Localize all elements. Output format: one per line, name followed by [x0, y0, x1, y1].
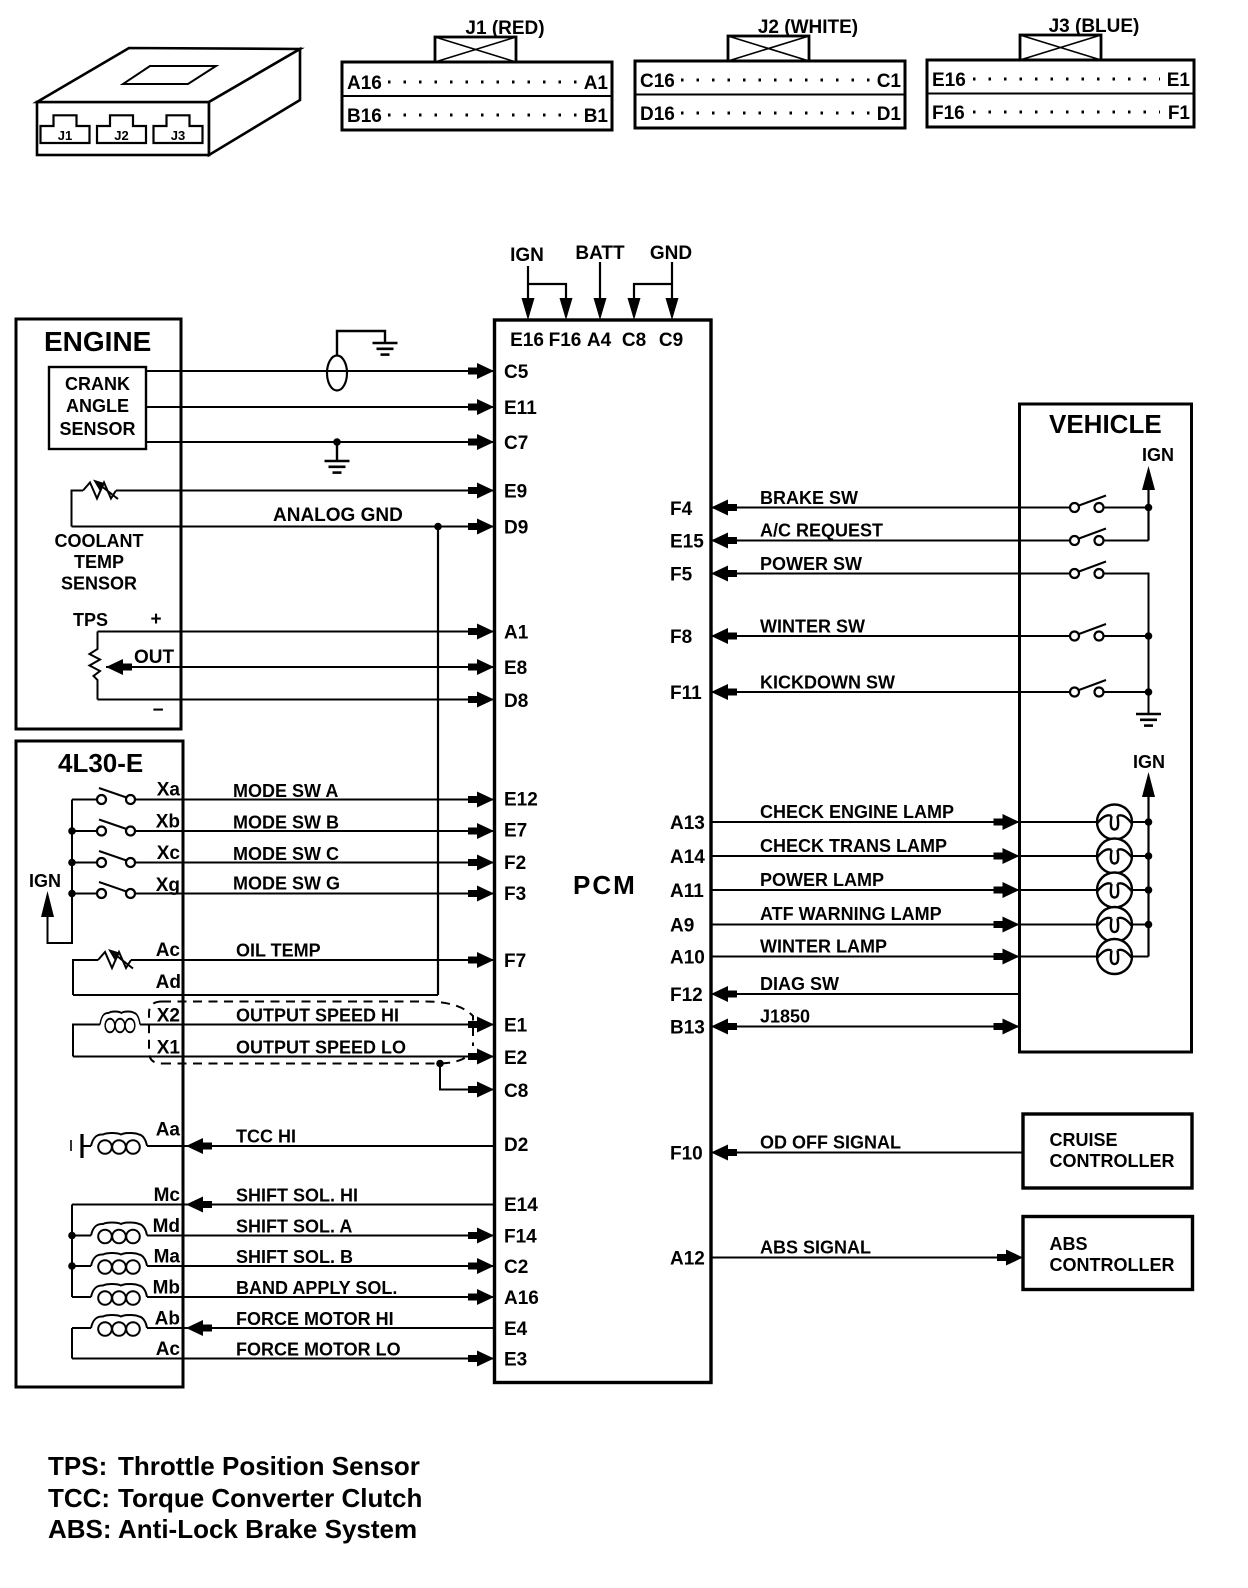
svg-text:D16: D16	[640, 104, 675, 125]
svg-text:Xb: Xb	[156, 812, 180, 833]
svg-text:ANALOG GND: ANALOG GND	[273, 505, 403, 526]
svg-text:B16: B16	[347, 106, 382, 127]
svg-text:−: −	[152, 700, 163, 721]
wire ATF warning lamp A9	[711, 924, 1097, 926]
svg-text:ABS SIGNAL: ABS SIGNAL	[760, 1238, 871, 1258]
wire shield drain to C8	[440, 1064, 493, 1090]
oil temp sensor thermistor	[98, 952, 131, 968]
wire output speed lo to E2	[73, 1056, 493, 1058]
wire TPS - to D8	[98, 699, 494, 701]
switch Xa (mode A)	[72, 799, 97, 801]
svg-text:SHIFT SOL. A: SHIFT SOL. A	[236, 1217, 352, 1237]
switch kickdown	[1070, 688, 1079, 697]
svg-text:ATF WARNING LAMP: ATF WARNING LAMP	[760, 904, 942, 924]
svg-text:F16: F16	[932, 103, 965, 124]
svg-text:SHIFT SOL. B: SHIFT SOL. B	[236, 1247, 353, 1267]
shift solenoid B coil Ma	[72, 1265, 91, 1267]
svg-text:F4: F4	[670, 499, 693, 520]
svg-text:CONTROLLER: CONTROLLER	[1050, 1255, 1175, 1275]
svg-text:F14: F14	[504, 1227, 537, 1248]
svg-text:E2: E2	[504, 1048, 527, 1069]
svg-text:TPS:: TPS:	[48, 1451, 107, 1481]
force motor rail	[71, 1328, 73, 1359]
svg-text:X2: X2	[157, 1006, 180, 1027]
shift solenoid rail	[71, 1205, 73, 1298]
svg-text:A10: A10	[670, 948, 705, 969]
node junction winter row	[1145, 632, 1153, 640]
svg-text:ANGLE: ANGLE	[66, 396, 129, 416]
svg-text:F11: F11	[670, 683, 702, 704]
svg-text:F12: F12	[670, 985, 703, 1006]
wire diag sw F12	[711, 993, 1020, 995]
svg-text:Mb: Mb	[153, 1278, 180, 1299]
wire shift sol. B to C2	[147, 1265, 493, 1267]
wire power sw ground rail	[1104, 574, 1149, 714]
lamp check trans	[1097, 839, 1132, 874]
wire band apply sol. to A16	[147, 1296, 493, 1298]
wire winter sw to F8	[711, 635, 1070, 637]
svg-text:SENSOR: SENSOR	[61, 574, 137, 594]
wire analog gnd to D9	[72, 526, 494, 528]
svg-text:BATT: BATT	[575, 243, 625, 264]
wire crank to E11	[146, 406, 493, 408]
svg-text:A16: A16	[504, 1288, 539, 1309]
svg-text:F3: F3	[504, 884, 526, 905]
coolant temp sensor thermistor	[83, 483, 116, 499]
wire oil temp low side	[73, 960, 98, 995]
node junction on shield drain	[436, 1060, 444, 1068]
svg-text:MODE SW C: MODE SW C	[233, 844, 339, 864]
svg-text:FORCE MOTOR LO: FORCE MOTOR LO	[236, 1340, 401, 1360]
wire analog gnd vertical	[437, 527, 439, 996]
svg-text:DIAG SW: DIAG SW	[760, 974, 839, 994]
wire crank to C5	[146, 370, 493, 372]
svg-text:TPS: TPS	[73, 610, 108, 630]
svg-text:POWER LAMP: POWER LAMP	[760, 870, 884, 890]
svg-text:WINTER LAMP: WINTER LAMP	[760, 937, 887, 957]
svg-text:C5: C5	[504, 362, 529, 383]
shift solenoid A coil Md	[72, 1235, 91, 1237]
svg-text:OD OFF SIGNAL: OD OFF SIGNAL	[760, 1133, 901, 1153]
switch a/c	[1070, 536, 1079, 545]
svg-text:A9: A9	[670, 916, 694, 937]
svg-text:Xa: Xa	[157, 780, 181, 801]
svg-text:CONTROLLER: CONTROLLER	[1050, 1151, 1175, 1171]
wire shield pigtail to ground	[337, 331, 385, 356]
svg-text:Anti-Lock Brake System: Anti-Lock Brake System	[118, 1514, 417, 1544]
mode switch rail	[48, 800, 73, 944]
svg-text:F5: F5	[670, 565, 693, 586]
node junction Xg	[68, 890, 76, 898]
svg-text:Ma: Ma	[154, 1247, 181, 1268]
svg-text:C7: C7	[504, 433, 528, 454]
wire crank to C7	[146, 441, 493, 443]
svg-text:E9: E9	[504, 482, 527, 503]
node junction Xb	[68, 827, 76, 835]
node junction Xc	[68, 859, 76, 867]
svg-text:A13: A13	[670, 813, 705, 834]
wire TPS + to A1	[98, 631, 494, 633]
lamp power	[1097, 873, 1132, 908]
svg-text:A16: A16	[347, 73, 382, 94]
svg-text:E12: E12	[504, 790, 538, 811]
svg-text:WINTER SW: WINTER SW	[760, 617, 865, 637]
svg-text:KICKDOWN SW: KICKDOWN SW	[760, 673, 895, 693]
TPS resistor body	[90, 632, 101, 700]
svg-text:IGN: IGN	[1133, 752, 1165, 772]
force motor coil Ab	[72, 1327, 91, 1329]
band apply solenoid coil Mb	[72, 1296, 91, 1298]
svg-text:F16: F16	[549, 330, 582, 351]
wire mode sw B to E7	[135, 830, 493, 832]
switch Xc (mode C)	[72, 862, 97, 864]
svg-text:A/C REQUEST: A/C REQUEST	[760, 521, 883, 541]
wire check engine lamp A13	[711, 821, 1097, 823]
svg-text:E7: E7	[504, 821, 527, 842]
svg-text:E3: E3	[504, 1350, 527, 1371]
svg-text:J1850: J1850	[760, 1007, 810, 1027]
wire lamp rail	[1147, 797, 1149, 957]
wire shift sol. A to F14	[147, 1235, 493, 1237]
svg-text:J2: J2	[114, 128, 128, 143]
4L30-E box	[16, 741, 183, 1387]
ground (crank shield)	[373, 343, 398, 355]
ENGINE box	[16, 319, 181, 729]
svg-text:BAND APPLY SOL.: BAND APPLY SOL.	[236, 1278, 397, 1298]
svg-text:B13: B13	[670, 1018, 705, 1039]
switch Xg (mode G)	[72, 893, 97, 895]
svg-text:IGN: IGN	[510, 245, 544, 266]
svg-text:CHECK TRANS LAMP: CHECK TRANS LAMP	[760, 836, 947, 856]
inline connector ellipse on C5 wire	[327, 356, 347, 391]
svg-text:D8: D8	[504, 691, 528, 712]
svg-text:SENSOR: SENSOR	[59, 419, 135, 439]
svg-text:C8: C8	[622, 330, 646, 351]
svg-text:E4: E4	[504, 1319, 528, 1340]
wire TCC HI to D2	[147, 1145, 494, 1147]
svg-text:E15: E15	[670, 532, 704, 553]
crank angle sensor box	[49, 367, 146, 449]
wire shift sol. hi to E14	[72, 1204, 494, 1206]
TCC solenoid coil Aa	[84, 1145, 92, 1147]
wire output speed sensor low side	[73, 1025, 100, 1057]
svg-text:D1: D1	[877, 104, 902, 125]
svg-text:C8: C8	[504, 1081, 528, 1102]
svg-text:F10: F10	[670, 1144, 703, 1165]
svg-text:OUTPUT SPEED HI: OUTPUT SPEED HI	[236, 1006, 399, 1026]
svg-text:C2: C2	[504, 1257, 528, 1278]
connector J3 tab on module	[154, 115, 203, 143]
wire coolant low side	[72, 491, 84, 527]
svg-text:ENGINE: ENGINE	[44, 326, 151, 357]
wire junction down	[336, 442, 338, 460]
shield (output speed, dashed)	[149, 1002, 162, 1064]
svg-text:F1: F1	[1168, 103, 1191, 124]
svg-text:SHIFT SOL. HI: SHIFT SOL. HI	[236, 1186, 358, 1206]
node junction on D9 wire	[434, 523, 442, 531]
svg-text:E8: E8	[504, 658, 527, 679]
svg-text:PCM: PCM	[573, 870, 637, 900]
wire Ad to analog gnd	[73, 994, 438, 996]
svg-text:TCC HI: TCC HI	[236, 1127, 296, 1147]
svg-text:F2: F2	[504, 853, 526, 874]
svg-text:ABS: ABS	[1050, 1234, 1088, 1254]
svg-text:MODE SW G: MODE SW G	[233, 874, 340, 894]
switch brake	[1070, 503, 1079, 512]
svg-text:Md: Md	[153, 1216, 180, 1237]
wire check trans lamp A14	[711, 855, 1097, 857]
svg-text:FORCE MOTOR HI: FORCE MOTOR HI	[236, 1309, 394, 1329]
svg-text:J1: J1	[58, 128, 72, 143]
lamp ATF warning	[1097, 907, 1132, 942]
svg-text:E11: E11	[504, 398, 537, 419]
IGN arrow (4L30)	[41, 891, 54, 917]
svg-text:Aa: Aa	[156, 1120, 181, 1141]
wire a/c request to E15	[711, 540, 1070, 542]
svg-text:COOLANT: COOLANT	[55, 531, 144, 551]
svg-text:A11: A11	[670, 881, 704, 902]
svg-text:A1: A1	[504, 623, 529, 644]
svg-text:X1: X1	[157, 1038, 181, 1059]
PCM module 3D box	[37, 48, 300, 155]
wire J1850 B13	[711, 1026, 1020, 1028]
svg-text:D9: D9	[504, 518, 528, 539]
connector J1 tab on module	[41, 115, 90, 143]
ground (vehicle switches)	[1136, 714, 1161, 726]
wire OD off signal F10	[711, 1152, 1023, 1154]
svg-text:B1: B1	[584, 106, 609, 127]
wire kickdown sw to F11	[711, 691, 1070, 693]
svg-text:F8: F8	[670, 627, 692, 648]
wire force motor lo to E3	[72, 1358, 493, 1360]
switch Xb (mode B)	[72, 830, 97, 832]
svg-text:Ad: Ad	[156, 972, 181, 993]
svg-text:GND: GND	[650, 243, 692, 264]
svg-text:A4: A4	[587, 330, 612, 351]
wire power lamp A11	[711, 889, 1097, 891]
svg-text:Ac: Ac	[156, 1339, 181, 1360]
top label plate	[123, 66, 216, 84]
lamp winter	[1097, 939, 1132, 974]
svg-text:IGN: IGN	[1142, 445, 1174, 465]
svg-text:OUTPUT SPEED LO: OUTPUT SPEED LO	[236, 1038, 406, 1058]
svg-text:E16: E16	[510, 330, 544, 351]
svg-text:BRAKE SW: BRAKE SW	[760, 488, 858, 508]
connector J2 tab on module	[97, 115, 146, 143]
wire mode sw G to F3	[135, 893, 493, 895]
wire IGN to E16/F16	[528, 266, 566, 300]
wire force motor hi to E4	[147, 1327, 494, 1329]
ground (C7)	[325, 461, 350, 473]
svg-text:E1: E1	[504, 1016, 528, 1037]
output speed sensor coil X2/X1	[100, 1012, 140, 1033]
svg-text:IGN: IGN	[29, 871, 61, 891]
svg-text:TCC:: TCC:	[48, 1483, 110, 1513]
wire mode sw C to F2	[135, 862, 493, 864]
svg-text:CHECK ENGINE LAMP: CHECK ENGINE LAMP	[760, 802, 954, 822]
svg-text:Torque Converter Clutch: Torque Converter Clutch	[118, 1483, 422, 1513]
svg-text:TEMP: TEMP	[74, 552, 124, 572]
svg-text:C16: C16	[640, 71, 675, 92]
VEHICLE box	[1020, 404, 1192, 1052]
svg-text:F7: F7	[504, 951, 526, 972]
svg-text:J3: J3	[171, 128, 185, 143]
svg-text:A14: A14	[670, 847, 705, 868]
TCC solenoid case terminal	[70, 1140, 72, 1151]
wire brake sw to F4	[711, 507, 1070, 509]
wire ABS signal A12	[711, 1257, 1022, 1259]
wire GND to C8/C9	[634, 262, 672, 300]
svg-text:Ab: Ab	[155, 1309, 180, 1330]
svg-text:CRUISE: CRUISE	[1050, 1130, 1118, 1150]
wire winter lamp A10	[711, 956, 1097, 958]
node junction kickdown row	[1145, 688, 1153, 696]
svg-text:POWER SW: POWER SW	[760, 554, 862, 574]
cruise controller box	[1023, 1114, 1192, 1188]
wire power sw to F5	[711, 573, 1070, 575]
svg-text:E16: E16	[932, 70, 966, 91]
wire TPS OUT to E8	[106, 666, 493, 668]
svg-text:CRANK: CRANK	[65, 374, 130, 394]
switch power	[1070, 569, 1079, 578]
wire BATT to A4	[599, 262, 601, 300]
svg-text:VEHICLE: VEHICLE	[1049, 409, 1162, 439]
svg-text:Xc: Xc	[157, 843, 181, 864]
svg-text:E1: E1	[1167, 70, 1191, 91]
svg-text:D2: D2	[504, 1135, 528, 1156]
svg-text:Throttle Position Sensor: Throttle Position Sensor	[118, 1451, 420, 1481]
wire mode sw A to E12	[135, 799, 493, 801]
svg-text:A1: A1	[584, 73, 609, 94]
svg-text:OIL TEMP: OIL TEMP	[236, 941, 321, 961]
svg-text:ABS:: ABS:	[48, 1514, 112, 1544]
node junction brake row	[1145, 504, 1153, 512]
svg-text:+: +	[150, 609, 161, 630]
svg-text:A12: A12	[670, 1249, 705, 1270]
svg-text:E14: E14	[504, 1195, 538, 1216]
svg-text:MODE SW B: MODE SW B	[233, 813, 339, 833]
switch winter	[1070, 632, 1079, 641]
wire oil temp to F7	[131, 959, 493, 961]
svg-text:Ac: Ac	[156, 940, 181, 961]
svg-text:OUT: OUT	[134, 647, 175, 668]
lamp check engine	[1097, 805, 1132, 840]
wire output speed hi to E1	[140, 1024, 493, 1026]
svg-text:Mc: Mc	[154, 1185, 181, 1206]
wire coolant to E9	[116, 490, 493, 492]
ABS controller box	[1023, 1217, 1193, 1290]
svg-text:C9: C9	[659, 330, 683, 351]
svg-text:4L30-E: 4L30-E	[58, 748, 143, 778]
node junction on C7 wire	[333, 438, 341, 446]
svg-text:MODE SW A: MODE SW A	[233, 781, 338, 801]
svg-text:C1: C1	[877, 71, 902, 92]
